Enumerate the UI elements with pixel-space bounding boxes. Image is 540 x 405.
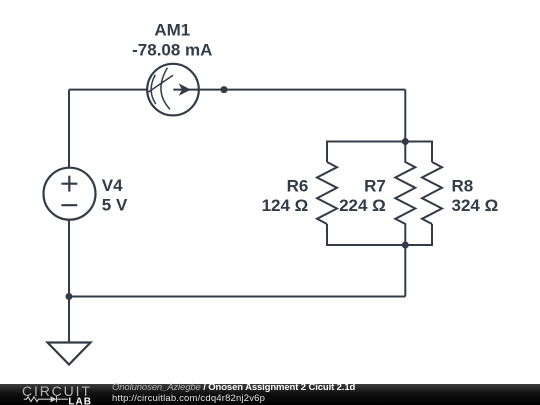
wire top rail left xyxy=(69,89,147,91)
wire bottom rail xyxy=(69,296,405,298)
svg-text:LAB: LAB xyxy=(68,397,92,405)
CircuitLab logo xyxy=(0,384,92,405)
wire right vertical lower xyxy=(404,245,406,297)
ammeter AM1 xyxy=(147,64,199,116)
resistor R8 xyxy=(422,162,442,224)
wire left vertical upper xyxy=(68,90,70,168)
wire left vertical lower xyxy=(68,220,70,343)
svg-text:-78.08 mA: -78.08 mA xyxy=(132,40,212,59)
node dot on top rail xyxy=(221,86,228,93)
svg-text:124 Ω: 124 Ω xyxy=(262,196,309,215)
wire parallel bottom branch xyxy=(327,224,432,245)
voltage source V4 xyxy=(44,168,96,220)
resistor R6 xyxy=(317,162,337,224)
ground xyxy=(48,343,91,365)
svg-text:R7: R7 xyxy=(364,177,386,196)
node at parallel bottom junction xyxy=(402,242,409,249)
svg-text:5 V: 5 V xyxy=(102,196,128,215)
svg-text:AM1: AM1 xyxy=(154,21,190,40)
footer bar xyxy=(0,384,540,405)
wire top rail right xyxy=(199,89,405,91)
svg-text:R6: R6 xyxy=(287,177,309,196)
svg-text:324 Ω: 324 Ω xyxy=(452,196,499,215)
wire parallel top branch xyxy=(327,142,432,163)
footer text xyxy=(112,383,355,403)
wire right vertical upper xyxy=(404,90,406,142)
svg-text:R8: R8 xyxy=(452,177,474,196)
node at parallel top junction xyxy=(402,138,409,145)
svg-text:224 Ω: 224 Ω xyxy=(339,196,386,215)
node at ground junction xyxy=(66,293,73,300)
resistor R7 xyxy=(395,142,415,246)
svg-text:V4: V4 xyxy=(102,176,123,195)
